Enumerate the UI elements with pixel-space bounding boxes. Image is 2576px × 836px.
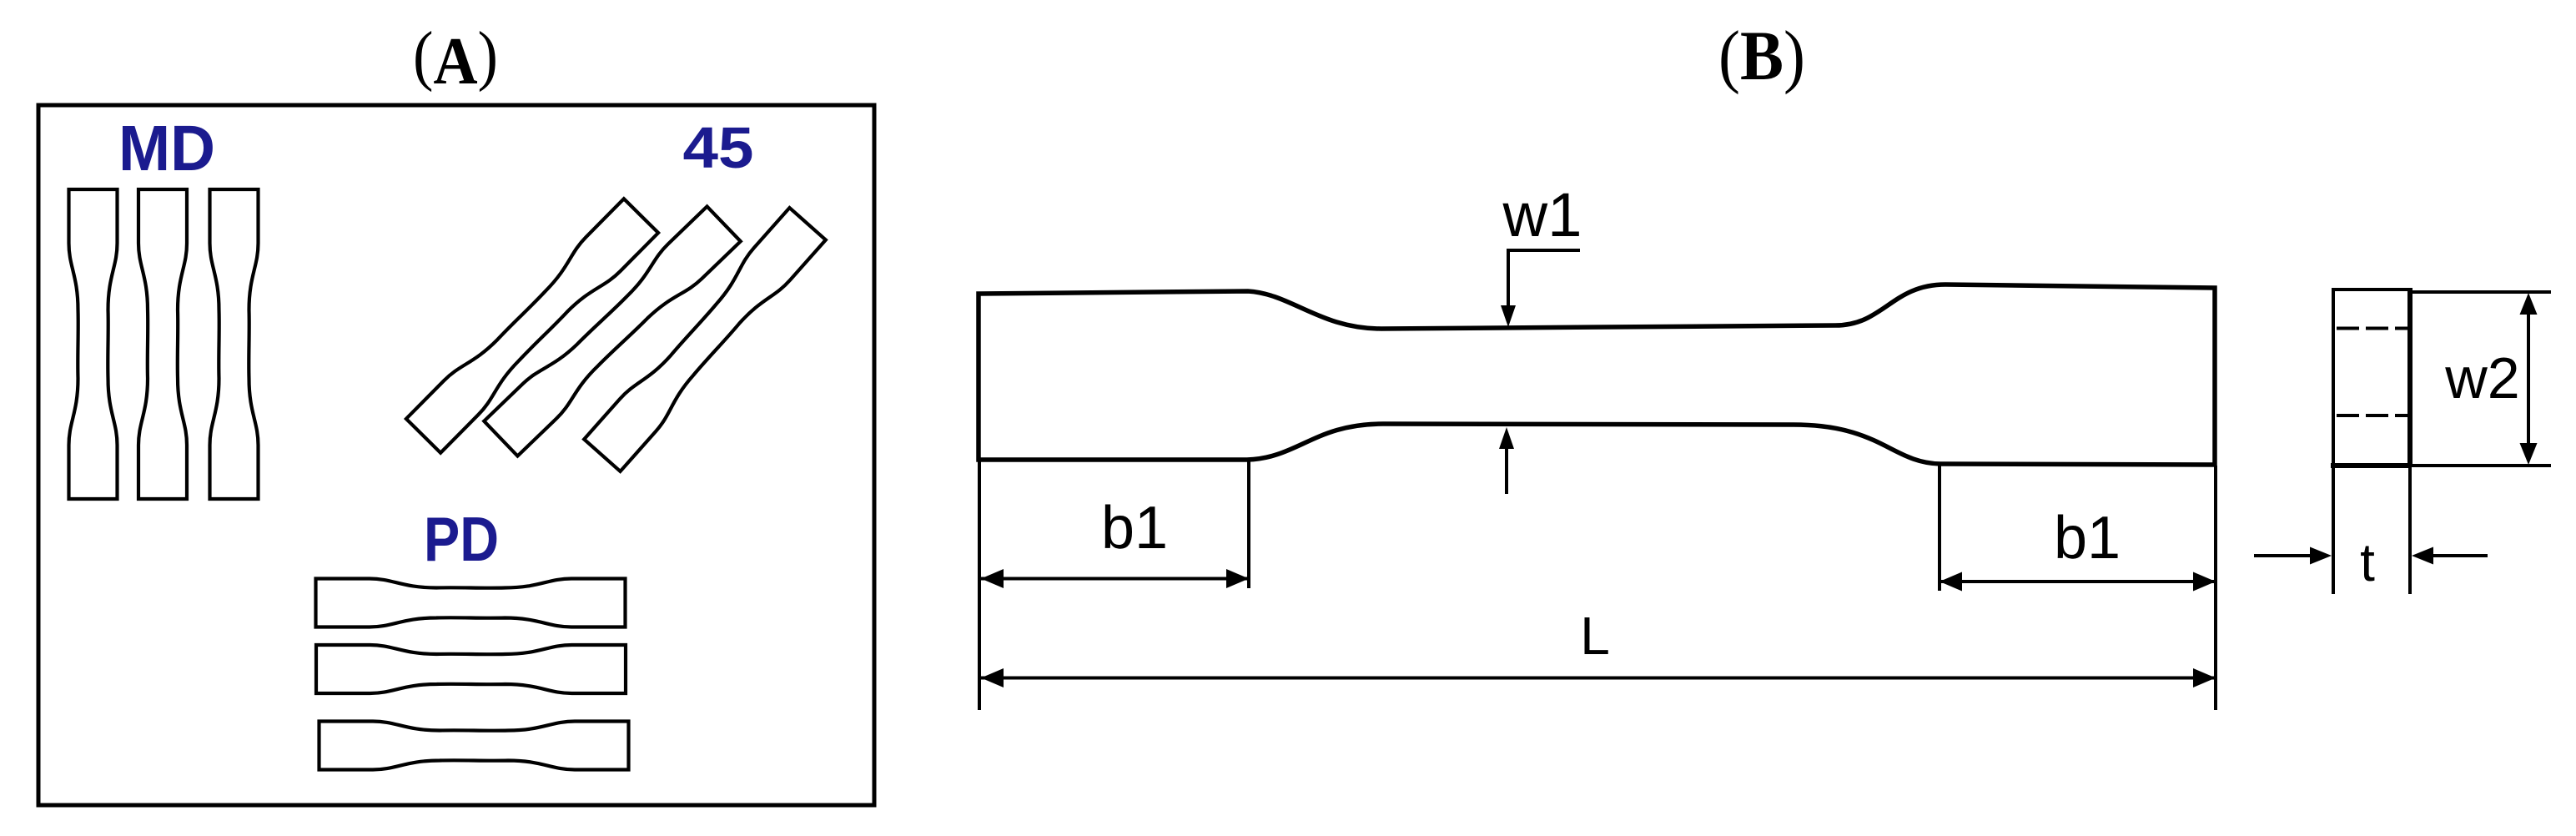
svg-text:w2: w2 [2444,345,2519,410]
b1 right arrow left [1940,572,1962,592]
cross-section extension line left [2332,467,2335,594]
cross-section rectangle [2333,290,2410,467]
svg-text:t: t [2360,532,2375,592]
L arrow right [2193,668,2216,687]
svg-text:w1: w1 [1502,180,1582,249]
w2 tick bottom [2411,464,2551,467]
PD specimen 1 [316,579,626,627]
t arrow left shaft [2254,554,2315,557]
svg-text:(B): (B) [1718,17,1805,95]
b1 left arrow left [981,569,1004,588]
45-deg specimen 2 [484,206,741,456]
t arrow right head [2412,547,2433,565]
cross-section dashed line upper [2337,327,2408,330]
w2 arrow down [2520,443,2538,465]
extension line right inner [1938,466,1941,591]
w1 up arrow head [1499,427,1514,449]
45-deg specimen 3 [584,208,826,471]
b1 left arrow right [1226,569,1249,588]
b1 right arrow right [2193,572,2216,592]
w2 tick top [2411,290,2551,294]
svg-text:(A): (A) [413,18,498,98]
extension line left inner [1247,461,1250,588]
svg-text:b1: b1 [1101,495,1168,562]
45-deg specimen 1 [406,199,658,453]
w2 arrow up [2520,293,2538,315]
cross-section dashed line lower [2337,414,2408,417]
L arrow left [981,668,1004,687]
MD specimen 2 [138,189,187,499]
MD specimen 3 [210,189,259,499]
w2 dimension line [2527,310,2530,447]
extension line right end [2214,466,2217,710]
panel A frame [38,105,874,805]
MD specimen 1 [69,189,118,499]
t arrow left head [2310,547,2332,565]
b1 left dimension line [981,577,1249,581]
svg-text:45: 45 [683,115,754,180]
cross-section extension line right [2408,467,2412,594]
panel B specimen outline [979,285,2215,465]
t arrow right shaft [2428,554,2488,557]
svg-text:MD: MD [118,113,215,184]
w1 down arrow [1501,305,1516,327]
w1 leader line [1508,250,1580,309]
b1 right dimension line [1940,580,2216,583]
PD specimen 3 [319,722,629,770]
svg-text:b1: b1 [2054,505,2121,572]
L dimension line [981,677,2216,680]
PD specimen 2 [316,645,626,693]
svg-text:PD: PD [424,504,499,574]
w1 up arrow shaft [1505,446,1508,494]
svg-text:L: L [1580,606,1610,666]
extension line left end [978,461,981,710]
